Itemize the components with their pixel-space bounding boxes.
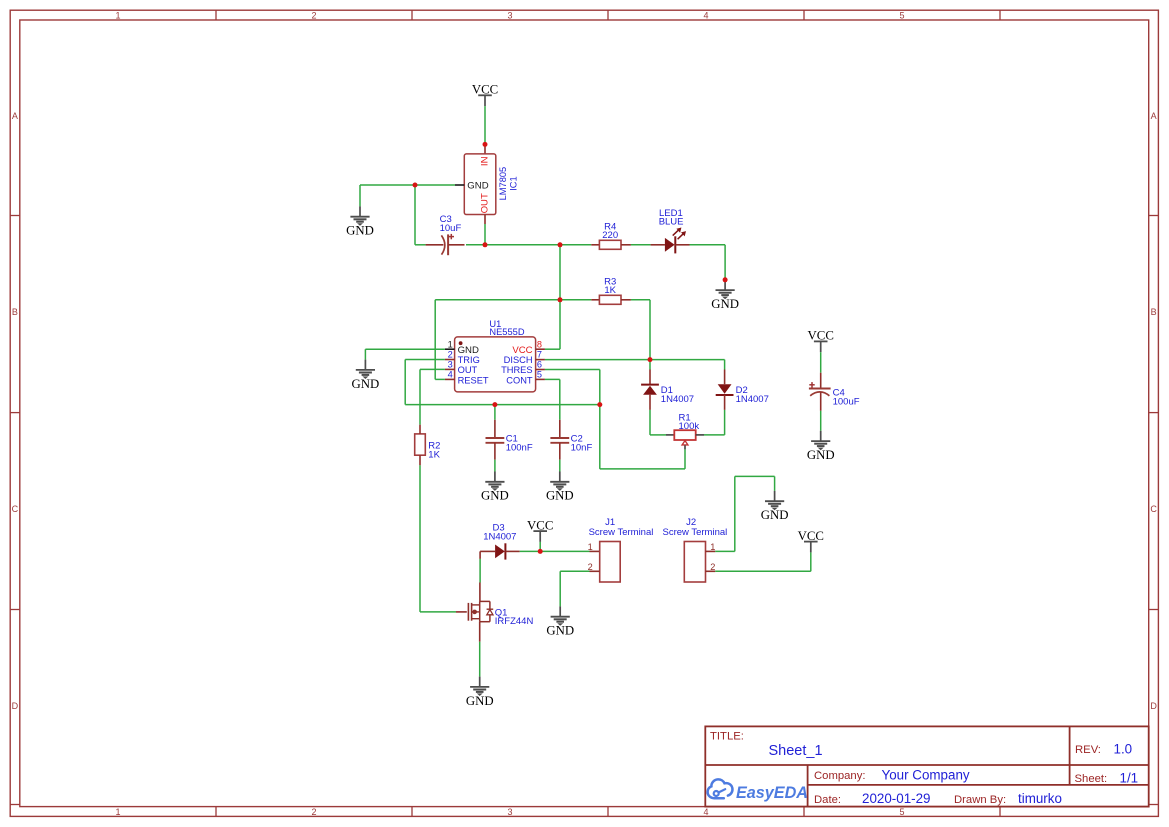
wire TRIG down [404,360,406,405]
wire D3 down to Q1 drain [479,559,481,583]
pin R3.2 stub [621,299,631,301]
pin OUT stub of IC1 [484,215,486,225]
U1 pin names right [501,345,533,385]
pin C2.1 stub [559,420,561,438]
pin C4 positive stub [820,373,822,389]
wire VCC to IC1.IN [484,106,486,144]
frame column tick x=216 top [215,10,217,20]
pin D2 cathode stub [724,395,726,410]
svg-text:D: D [12,701,19,711]
svg-text:IRFZ44N: IRFZ44N [495,616,534,627]
wire right to ground [735,475,775,477]
wire DISCH to right [545,359,725,361]
pin IN stub of IC1 [484,144,486,154]
diode D2 1N4007 [716,384,769,405]
capacitor C2 10nF [550,434,592,454]
svg-text:TRIG: TRIG [458,355,480,365]
frame column tick x=412 top [411,10,413,20]
resistor R4 220 [599,221,621,249]
pin C3 positive stub [448,244,464,246]
svg-text:3: 3 [507,807,512,817]
svg-text:C: C [1150,504,1157,514]
svg-text:1K: 1K [428,449,440,460]
svg-text:1/1: 1/1 [1120,770,1139,785]
svg-text:GND: GND [807,448,835,462]
svg-text:TITLE:: TITLE: [710,731,744,743]
pin LED1 anode stub [651,244,665,246]
pin Q1 drain stub [479,583,481,602]
svg-text:1: 1 [588,542,593,552]
frame row tick y=609.5 left [10,609,20,611]
pin GND stub of IC1 (black) [455,184,464,186]
svg-text:RESET: RESET [458,375,489,385]
wire DISCH down to D2 [724,360,726,370]
wire Q1 source to ground [479,642,481,677]
wire node down to 555 VCC pin [559,300,561,349]
frame row tick y=412.6 right [1149,412,1159,414]
pin D3 cathode stub [505,550,519,552]
svg-text:Sheet_1: Sheet_1 [769,743,823,759]
svg-text:5: 5 [899,11,904,21]
svg-text:GND: GND [761,508,789,522]
wire U1.GND to left ground [365,348,445,350]
pin D1 anode stub [649,395,651,410]
svg-text:220: 220 [602,230,618,241]
svg-text:2020-01-29: 2020-01-29 [862,791,931,806]
pin C1.1 stub [494,420,496,438]
pin U1.2 TRIG stub [445,359,455,361]
pin D3 anode corner stub [479,551,481,559]
pin U1.5 CONT stub [536,378,545,380]
junction bus/THRES [597,402,602,407]
svg-text:REV:: REV: [1075,744,1101,756]
U1 pin numbers [448,339,542,379]
wire VCC to C4 [820,352,822,373]
ground GND (regulator) [346,206,374,237]
svg-text:8: 8 [537,339,542,349]
svg-text:GND: GND [546,624,574,638]
svg-text:100k: 100k [679,421,700,432]
wire up to VCC flag [810,552,812,571]
svg-text:4: 4 [448,370,453,380]
frame column tick x=804 bottom [803,807,805,817]
resistor R2 1K (vertical) [415,434,441,460]
pin U1.3 OUT stub [445,368,455,370]
pin C4 negative stub [820,392,822,411]
pin R4.2 stub [621,244,631,246]
svg-text:Drawn By:: Drawn By: [954,794,1006,806]
wire C1 to ground [494,460,496,472]
svg-text:VCC: VCC [472,83,498,97]
junction +5V node [558,242,563,247]
frame row tick y=804.5 left [10,804,20,806]
svg-text:10nF: 10nF [571,443,593,454]
svg-text:Screw Terminal: Screw Terminal [663,527,728,538]
wire J2.2 to VCC [715,570,811,572]
wire +5V node down [559,245,561,300]
frame row tick y=412.6 left [10,412,20,414]
pin D3 anode stub [480,550,495,552]
svg-text:THRES: THRES [501,365,533,375]
pin R3.1 stub [591,299,599,301]
svg-text:7: 7 [537,350,542,360]
svg-text:2: 2 [448,350,453,360]
pin R4.1 stub [591,244,599,246]
title block outline [705,726,1148,806]
wire OUT left [420,368,445,370]
ground GND (C1) [481,472,509,503]
wire CONT down to C2 [559,379,561,419]
wire IC1.GND to left [360,184,455,186]
wire J1.2 left [560,570,589,572]
ground GND (J1) [546,606,574,637]
svg-text:100nF: 100nF [506,443,533,454]
connector J1 Screw Terminal [588,517,654,582]
wire down to ground [774,476,776,491]
frame row tick y=215.5 right [1149,215,1159,217]
svg-text:2: 2 [710,562,715,572]
junction at ground pin [723,277,728,282]
svg-text:2: 2 [588,562,593,572]
wire D3 to VCC node [520,550,541,552]
wire TRIG left [405,359,445,361]
svg-text:OUT: OUT [480,193,491,213]
svg-text:6: 6 [537,360,542,370]
pin U1.6 THRES stub [536,369,545,371]
svg-text:2: 2 [311,11,316,21]
pin C3 negative stub [426,244,444,246]
voltage regulator U IC1 LM7805 [464,154,518,215]
pin J2.1 stub [706,550,716,552]
frame column tick x=804 top [803,10,805,20]
svg-text:B: B [12,307,18,317]
potentiometer R1 100k [674,413,699,450]
wire wiper to left [600,468,685,470]
junction DISCH/D1 [648,357,653,362]
frame column tick x=1000 top [999,10,1001,20]
pin U1.1 GND stub (black) [445,348,455,350]
ground GND (Q1) [466,677,494,708]
pin R1.2 stub (black) [696,434,704,436]
power flag VCC mid [527,518,553,542]
ground GND (U1) [352,360,380,391]
wire up [734,476,736,551]
wire junction down to C3 left [414,185,416,245]
wire C2 to ground [559,460,561,472]
wire down to ground [364,349,366,359]
power flag VCC top [472,83,498,107]
ground GND (LED1) [711,280,739,311]
svg-text:IC1: IC1 [509,176,519,190]
svg-text:IN: IN [480,156,491,166]
frame row tick y=804.5 right [1149,804,1159,806]
wire OUT down to R2 [419,369,421,424]
svg-text:VCC: VCC [808,329,834,343]
svg-text:Sheet:: Sheet: [1075,773,1108,785]
svg-text:Screw Terminal: Screw Terminal [589,527,654,538]
pin J1.1 stub [590,550,600,552]
wire to C3 left pin [415,244,426,246]
wire R1.2 to D2 [704,434,725,436]
svg-text:Your Company: Your Company [882,767,970,782]
capacitor C3 10uF (polarized) [440,214,462,255]
pin D1 cathode stub [649,370,651,385]
pin U1.4 RESET stub [445,378,455,380]
wire C4 to ground [820,411,822,431]
svg-text:1K: 1K [604,285,616,296]
wire D2 to R1 right [724,410,726,435]
wire THRES down to bus [599,370,601,405]
svg-text:3: 3 [507,11,512,21]
wire TRIG/THRES bus [405,404,600,406]
svg-text:A: A [1151,111,1157,121]
svg-text:DISCH: DISCH [504,355,533,365]
pin J1.2 stub [590,570,600,572]
pin R2.2 stub [419,455,421,465]
svg-text:2: 2 [311,807,316,817]
wire OUT node to right [485,244,560,246]
wire into RESET pin [435,378,445,380]
junction OUT/C3 [483,242,488,247]
svg-text:100uF: 100uF [833,397,860,408]
svg-text:3: 3 [448,360,453,370]
wire up to bus [599,405,601,469]
svg-text:NE555D: NE555D [489,327,524,337]
wire LED1 to corner [690,244,726,246]
pin J2.2 stub [706,570,716,572]
wire to Q1 gate [420,611,456,613]
svg-text:VCC: VCC [527,518,553,532]
svg-text:1.0: 1.0 [1114,741,1133,756]
pin C2.2 stub [559,443,561,460]
svg-text:1: 1 [710,542,715,552]
pin C1.2 stub [494,443,496,460]
junction bus/C1 [492,402,497,407]
ground GND (C4) [807,431,835,462]
wire C3 to OUT node [466,244,485,246]
svg-text:GND: GND [466,694,494,708]
frame column tick x=608 bottom [607,807,609,817]
wire down to ground [559,571,561,606]
diode D1 1N4007 [641,385,694,405]
wire down to D1 [649,360,651,370]
wire D1 to R1 left [649,410,651,435]
wire OUT down [484,224,486,245]
svg-text:GND: GND [546,489,574,503]
transistor Q1 IRFZ44N [468,601,533,627]
frame row tick y=215.5 left [10,215,20,217]
wire to R4 [560,244,591,246]
junction VCC/J1 [538,549,543,554]
svg-text:1N4007: 1N4007 [661,394,694,405]
svg-text:B: B [1151,307,1157,317]
wire J2.1 right [715,550,735,552]
wire RESET node left section [435,299,560,301]
svg-text:GND: GND [346,224,374,238]
wire down to ground [359,185,361,206]
pin Q1 source stub [479,622,481,642]
timer IC U1 NE555D body [455,319,536,392]
pin R2.1 stub [419,425,421,434]
wire to 555 pin 8 [545,348,560,350]
pin U1.8 VCC stub [536,348,545,350]
frame column tick x=1000 bottom [999,807,1001,817]
wire THRES right [545,369,600,371]
svg-text:A: A [12,111,18,121]
svg-text:Date:: Date: [814,794,841,806]
svg-text:D: D [1150,701,1157,711]
junction at IC1 IN pin [483,142,488,147]
frame column tick x=216 bottom [215,807,217,817]
wire CONT right [545,378,560,380]
resistor R3 1K [599,276,621,304]
svg-text:5: 5 [537,370,542,380]
wire R2 down to Q1 gate [419,465,421,612]
frame row tick y=609.5 right [1149,609,1159,611]
wire VCC flag down [539,542,541,552]
svg-text:CONT: CONT [506,375,533,385]
power flag VCC C4 [808,329,834,353]
frame column tick x=608 top [607,10,609,20]
capacitor C4 100uF (polarized) [809,382,860,408]
frame column tick x=412 bottom [411,807,413,817]
U1 pin names left [458,345,489,385]
svg-text:4: 4 [703,807,708,817]
svg-text:timurko: timurko [1018,791,1062,806]
power flag VCC right [798,529,824,553]
svg-text:4: 4 [703,11,708,21]
pin U1.7 DISCH stub [536,359,545,361]
svg-text:BLUE: BLUE [659,217,684,228]
wire R4 to LED1 [631,244,651,246]
diode D3 1N4007 [483,522,516,559]
svg-text:VCC: VCC [798,529,824,543]
svg-text:1N4007: 1N4007 [736,394,769,405]
wire to R1.1 [650,434,666,436]
svg-text:LM7805: LM7805 [498,167,508,201]
connector J2 Screw Terminal [663,517,728,582]
svg-text:1: 1 [448,339,453,349]
pin D2 anode stub [724,370,726,385]
wire VCC node to J1.1 [540,550,589,552]
svg-text:5: 5 [899,807,904,817]
svg-text:1: 1 [115,11,120,21]
wire R3 right [631,299,650,301]
svg-text:1: 1 [115,807,120,817]
ground GND (C2) [546,472,574,503]
svg-text:10uF: 10uF [440,223,462,234]
svg-text:1N4007: 1N4007 [483,532,516,543]
LED LED1 BLUE [659,208,686,253]
svg-text:Company:: Company: [814,770,866,782]
junction VCC/R3/RESET node [558,297,563,302]
wire bus down to C1 [494,405,496,420]
ground GND (J2) [761,491,789,522]
wire R1 wiper down [684,449,686,469]
svg-text:EasyEDA: EasyEDA [736,784,808,802]
wire R3 down to DISCH [649,300,651,360]
pin R1.1 stub (black) [666,434,674,436]
svg-text:GND: GND [352,377,380,391]
EasyEDA logo [708,779,808,801]
svg-text:GND: GND [467,181,488,192]
wire to R3 [560,299,591,301]
wire RESET up to R3 node [434,300,436,380]
pin Q1 gate stub [456,611,467,613]
capacitor C1 100nF [486,434,533,454]
svg-text:GND: GND [711,297,739,311]
junction GND/C3 node [413,183,418,188]
svg-text:C: C [12,504,19,514]
wire down to ground [724,245,726,280]
pin LED1 cathode stub [675,244,689,246]
svg-text:GND: GND [481,489,509,503]
svg-text:OUT: OUT [458,365,478,375]
